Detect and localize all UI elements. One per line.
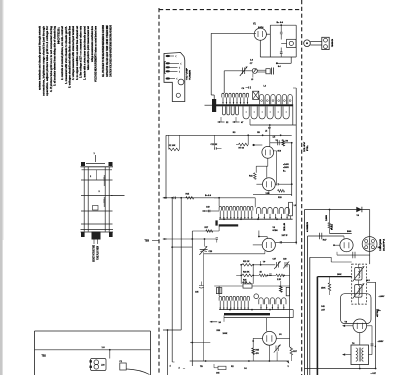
resistor R13 — [278, 190, 285, 193]
tuning shaft linkage — [257, 69, 266, 71]
svg-text:TB2: TB2 — [42, 356, 47, 358]
tuner chassis dashed border (left) — [158, 8, 160, 375]
lower shield line — [224, 317, 293, 319]
plate drop to V2B — [273, 150, 277, 152]
resistor ladder rails — [240, 265, 242, 284]
plate wire — [330, 233, 352, 235]
trimmer C33 — [276, 346, 278, 352]
fine tuning shaft — [252, 68, 257, 73]
tube shield outline — [341, 294, 372, 324]
rotor 2 lead — [218, 227, 220, 232]
wire V2 grid — [247, 135, 249, 144]
slug 3 — [286, 287, 289, 295]
svg-text:operation. adjust picture tube: operation. adjust picture tube grid no.1… — [46, 26, 49, 96]
svg-text:L11: L11 — [244, 282, 247, 284]
svg-text:TO VHF: TO VHF — [187, 67, 189, 80]
svg-text:CAPACITOR VALUES LESS THAN 1 I: CAPACITOR VALUES LESS THAN 1 IN MF OTHER… — [106, 25, 109, 77]
IF screen wire — [253, 264, 275, 266]
chassis dashed border (right) — [301, 0, 303, 375]
tube V2B 6U8 mixer — [256, 178, 275, 191]
wire V2B cathode — [268, 191, 270, 195]
svg-text:6U8: 6U8 — [278, 151, 281, 153]
wire V4 cathode — [268, 345, 270, 361]
wire V1 plate to B+ rail — [266, 33, 270, 35]
svg-text:VOLTAGE MEASUREMENTS taken as: VOLTAGE MEASUREMENTS taken as noted belo… — [95, 25, 98, 82]
svg-text:3. no signal condition on nois: 3. no signal condition on noise free cha… — [76, 26, 79, 80]
resistor R23 — [242, 274, 252, 277]
svg-text:12.6V: 12.6V — [304, 141, 306, 152]
svg-text:5. voltages should hold within: 5. voltages should hold within limits sh… — [69, 25, 72, 88]
svg-text:B+ 8.4: B+ 8.4 — [277, 21, 284, 24]
svg-text:TB3: TB3 — [145, 240, 150, 243]
capacitor C15 — [275, 183, 276, 185]
grid resistor dark R35 — [252, 338, 254, 348]
wire to V4 — [265, 318, 267, 332]
audio output transformer T4 — [351, 342, 369, 365]
resistor R31 (dark) — [280, 286, 282, 292]
wire V1 cathode return — [260, 56, 296, 58]
assembly 1 lower windings — [222, 106, 289, 119]
svg-text:6AF4: 6AF4 — [258, 26, 264, 29]
pivot circle — [254, 294, 259, 299]
svg-text:C11 5K: C11 5K — [211, 144, 218, 146]
plate cluster wire — [270, 142, 292, 144]
turret tuner coil assembly L1 top windings — [222, 93, 249, 104]
wire bus inside box — [35, 349, 151, 351]
svg-text:voltage measurements noted bel: voltage measurements noted below here — [91, 26, 94, 62]
svg-text:+265V: +265V — [378, 341, 385, 343]
trimmer C23 — [204, 239, 206, 247]
svg-text:470: 470 — [256, 352, 259, 355]
variable inductor L22 — [353, 283, 365, 298]
tube V2A 6U8 RF amp — [262, 146, 274, 158]
capacitor C25 — [280, 241, 281, 243]
assembly 2 scallop windings — [256, 207, 289, 219]
capacitor C11 — [215, 147, 217, 150]
svg-text:SOCKET PICTURE TUBE: SOCKET PICTURE TUBE — [94, 245, 96, 262]
svg-text:R35: R35 — [256, 350, 259, 352]
bottom rail — [305, 368, 376, 370]
svg-text:4.5: 4.5 — [273, 135, 276, 138]
svg-text:connections, brightness range: connections, brightness range should be … — [42, 25, 45, 96]
turret shield bar (thick) — [214, 104, 294, 106]
resistor R27 — [259, 274, 266, 277]
svg-text:L5: L5 — [265, 131, 267, 133]
wire V3 plate — [275, 241, 296, 243]
antenna jack J1 — [304, 40, 322, 47]
input arrow 2 — [342, 353, 345, 355]
resistor R43 — [328, 283, 330, 291]
rotor contact 2 — [215, 220, 217, 225]
lead wire from socket strip — [111, 195, 125, 197]
resistor R7 — [239, 143, 249, 146]
svg-text:R37: R37 — [293, 351, 296, 353]
tube V8 audio output — [346, 319, 372, 345]
wire V1 grid to turret — [210, 33, 212, 95]
svg-text:C65: C65 — [216, 373, 219, 375]
lower winding core dots — [246, 111, 247, 112]
svg-text:ALL VOLTAGES TO BE MEASURED RE: ALL VOLTAGES TO BE MEASURED REFERENCE CH… — [102, 25, 105, 77]
svg-text:C29: C29 — [283, 259, 286, 261]
tube V1 6AF4 — [253, 24, 266, 58]
plate feed drop — [269, 124, 271, 126]
speaker wire — [369, 354, 373, 356]
svg-text:2.2K: 2.2K — [277, 279, 282, 281]
heater feed wire — [276, 62, 278, 64]
tap wire — [367, 281, 376, 283]
svg-text:6CB6: 6CB6 — [273, 230, 279, 232]
channel 24 arrow — [210, 321, 218, 323]
assembly 3 top feed — [214, 285, 290, 287]
B+ wire with damper diode — [305, 209, 370, 211]
assembly 2 top feed — [214, 197, 255, 199]
capacitor C45 — [371, 344, 374, 346]
variable inductor L21 — [353, 266, 365, 281]
resistor R29 — [276, 274, 284, 277]
resistor R17 — [206, 230, 213, 233]
wire fine tuning — [224, 70, 252, 72]
svg-text:NOTES:: NOTES: — [57, 27, 60, 44]
screen dropping row — [253, 274, 259, 276]
crystal mixer box — [253, 91, 259, 99]
svg-text:TUNER: TUNER — [189, 69, 191, 80]
screen rail — [331, 261, 352, 263]
right bus wires — [291, 143, 293, 196]
svg-text:24.5: 24.5 — [366, 279, 370, 282]
svg-text:C27: C27 — [273, 259, 276, 261]
focus coil L30 — [90, 359, 107, 371]
resistor R37 — [290, 347, 293, 355]
resistor R11 — [254, 173, 257, 180]
cathode bus wire — [190, 360, 289, 362]
turret rotor contact bar — [212, 99, 216, 112]
svg-text:YOKE PLUG VIEW: YOKE PLUG VIEW — [98, 245, 100, 260]
capacitor C6 — [249, 86, 251, 89]
svg-text:2. controls at normal picture,: 2. controls at normal picture, vol. min.… — [61, 26, 64, 80]
oscillator slug — [289, 202, 293, 216]
svg-text:1ST IF: 1ST IF — [282, 235, 289, 237]
svg-text:—: — — [183, 368, 185, 370]
svg-text:1. made with a vtvm tuner quie: 1. made with a vtvm tuner quiet chassis … — [83, 26, 86, 80]
svg-text:B+ 8.4: B+ 8.4 — [205, 194, 212, 197]
svg-text:+140V: +140V — [283, 163, 290, 166]
svg-text:R9: R9 — [286, 141, 288, 143]
capacitor C21 — [216, 238, 218, 239]
shield bar 3 (thick) — [224, 313, 270, 315]
capacitor C3 — [280, 52, 283, 54]
mixer grid lead — [202, 210, 207, 212]
input arrow 1 — [342, 325, 345, 327]
assembly 1 bottom lead wire — [249, 119, 251, 125]
turret assembly 2 oscillator coils — [219, 206, 253, 219]
assembly 1 antenna coil scallops — [259, 95, 292, 105]
AGC bus wire — [166, 134, 292, 136]
capacitor C31 — [269, 274, 272, 276]
wire to V3 grid — [204, 253, 265, 255]
capacitor C2 — [280, 32, 283, 34]
assembly 2 core dots — [258, 217, 259, 218]
assembly 2 baseline — [219, 218, 293, 220]
turret assembly 3 mixer coils — [219, 296, 249, 309]
bus B — [307, 236, 309, 375]
assembly 3 core dots — [260, 307, 261, 308]
resistor R41 — [329, 210, 331, 223]
test point arrow — [286, 361, 289, 364]
svg-text:150K: 150K — [321, 288, 326, 290]
speaker / yoke interconnect box TB2 — [35, 331, 151, 375]
VHF tuner connector bracket — [164, 53, 185, 102]
svg-text:2. line voltage at 117 v a-c m: 2. line voltage at 117 v a-c measured va… — [80, 25, 83, 78]
svg-text:4. voltage measured with anten: 4. voltage measured with antenna input t… — [72, 26, 75, 80]
rotor lead — [205, 104, 213, 106]
bus wire 2 — [180, 198, 182, 330]
assembly 3 baseline — [219, 309, 293, 311]
capacitor C41 — [320, 233, 322, 239]
screen wire — [308, 235, 344, 237]
svg-text:CAUTION VOLTAGES AND WAVEFORMS: CAUTION VOLTAGES AND WAVEFORMS SHOWN AS … — [110, 25, 113, 77]
wire V2 cathode — [267, 158, 269, 166]
svg-text:+265V: +265V — [283, 167, 290, 169]
core symbol — [216, 288, 221, 294]
bus wire 1 — [171, 198, 173, 362]
yoke plug P1 — [120, 361, 150, 375]
notes text block — [39, 25, 113, 96]
capacitor C17 — [174, 197, 176, 200]
svg-text:1. measured with vtvm chassis: 1. measured with vtvm chassis to chassis… — [65, 26, 68, 84]
svg-text:R1 10K: R1 10K — [169, 145, 176, 147]
svg-text:+140V: +140V — [379, 295, 386, 298]
picture tube socket terminal strip — [81, 153, 125, 244]
boost wire — [310, 256, 331, 258]
trimmer C5 fine tuning — [243, 68, 245, 75]
terminal resistor — [218, 366, 226, 369]
thick B- bus — [316, 277, 318, 375]
svg-text:12DQ6B: 12DQ6B — [380, 238, 382, 251]
capacitor C35 — [199, 286, 204, 289]
svg-text:R23 5K: R23 5K — [243, 271, 250, 273]
tube V6 half triode — [333, 236, 353, 252]
ground return wire — [163, 329, 181, 331]
svg-text:antenna terminals and chassis: antenna terminals and chassis ground thr… — [39, 25, 42, 90]
cathode wire — [337, 254, 370, 256]
trap component — [243, 284, 252, 288]
svg-text:C35: C35 — [195, 292, 198, 294]
trimmer C27 — [276, 262, 278, 268]
capacitor C13 — [277, 140, 279, 145]
tuner chassis dashed border (top) — [159, 9, 302, 11]
svg-text:R21 1K: R21 1K — [243, 261, 250, 263]
grid lead — [253, 144, 262, 146]
resistor R9 (dark) — [282, 140, 284, 146]
resistor R1 — [168, 135, 170, 149]
B+ bus right — [375, 282, 377, 368]
resistor R25 — [242, 282, 252, 285]
scallop coil tap circles — [261, 100, 263, 102]
wire plate V1 — [211, 32, 254, 34]
svg-text:4. if picture tube grid no.1 i: 4. if picture tube grid no.1 is not conn… — [50, 25, 53, 92]
trimmer C29 — [285, 262, 287, 267]
ground return wire — [317, 276, 351, 278]
svg-text:100K: 100K — [337, 274, 342, 276]
grid bias wire — [163, 238, 167, 240]
bus wire 3 — [191, 231, 193, 366]
tube V4 6AG5 — [253, 331, 289, 345]
svg-text:R7 68: R7 68 — [239, 148, 245, 150]
phono jack M1 — [281, 39, 296, 47]
antenna terminal board — [322, 37, 334, 49]
ant lead arrows — [218, 121, 225, 123]
B+ feed wire — [163, 197, 167, 199]
resistor R15 — [186, 197, 194, 200]
diode CR1 — [356, 207, 362, 212]
page left edge shadow — [0, 0, 3, 375]
svg-text:21ATP4: 21ATP4 — [382, 238, 385, 251]
bus A — [304, 210, 306, 375]
svg-text:3. all sockets viewed from wir: 3. all sockets viewed from wiring side o… — [54, 26, 57, 86]
right vertical from diode — [369, 210, 371, 265]
svg-text:taken with point to point meas: taken with point to point measurement se… — [87, 26, 90, 70]
svg-text:4.5MEG: 4.5MEG — [306, 222, 309, 232]
AGC link wire — [172, 246, 192, 248]
shield bar 2 (thick) — [219, 224, 239, 226]
bus wire right mid — [289, 265, 291, 347]
tube V7 horizontal output (socket view) — [362, 237, 377, 252]
tube V3 6CB6 IF — [253, 231, 276, 252]
svg-text:L3: L3 — [251, 79, 253, 81]
link wire — [190, 342, 210, 344]
assembly 3 scallops — [259, 298, 286, 310]
IF transformer T2 shield (dashed) — [352, 264, 367, 304]
svg-text:100K: 100K — [223, 333, 228, 335]
resistor R21 — [242, 264, 252, 267]
